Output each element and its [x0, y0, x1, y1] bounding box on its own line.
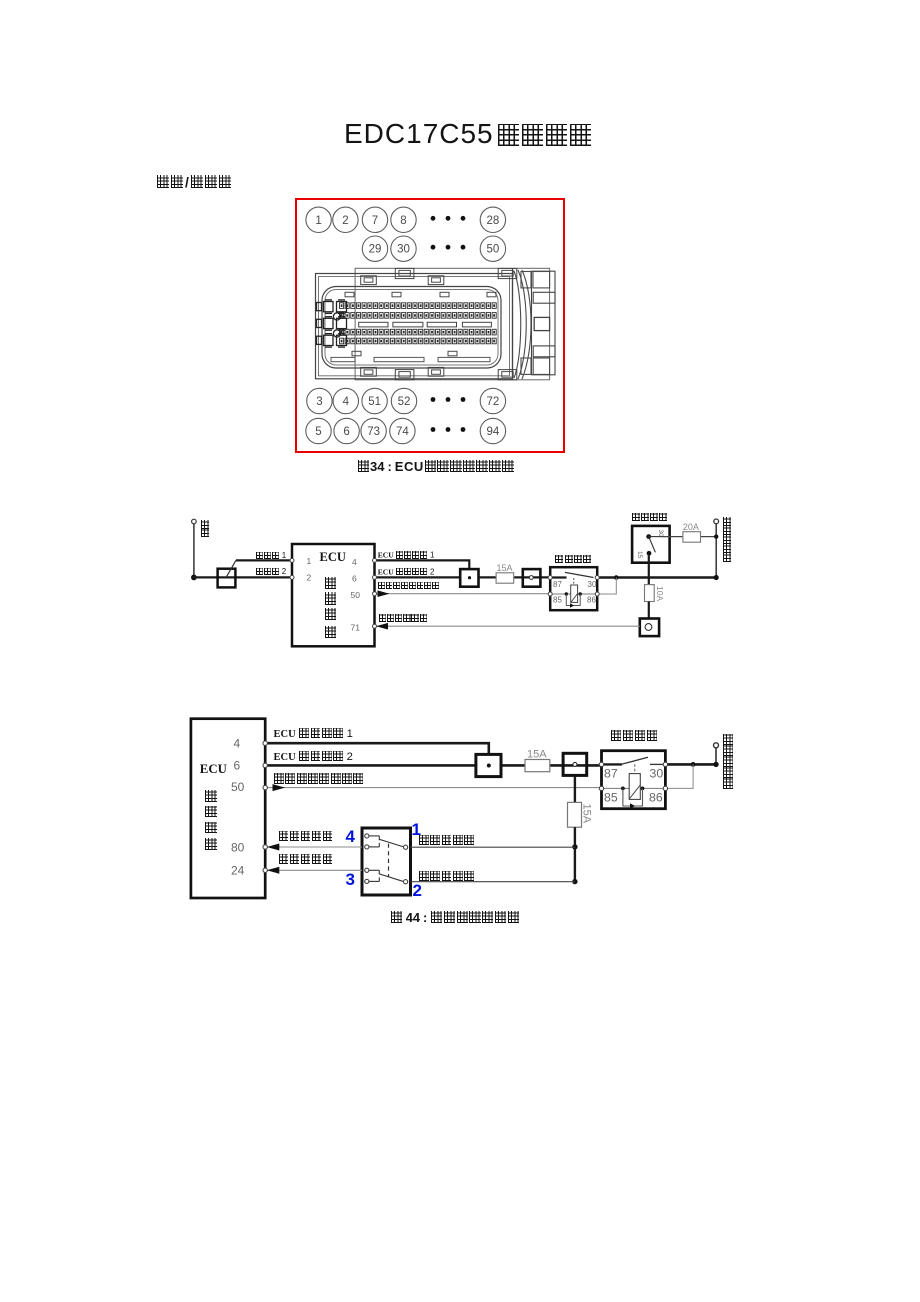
svg-text:1: 1 — [315, 215, 321, 227]
connector C5 junction — [563, 753, 587, 775]
svg-text:1: 1 — [307, 556, 312, 566]
wire 接地端1 to ECU pin1 — [236, 559, 292, 561]
wire ground vertical — [193, 524, 195, 578]
relay K1 主继电器 — [550, 567, 597, 610]
ECU1 box text — [320, 551, 346, 564]
wire main brake signal to pin80 — [265, 846, 362, 848]
svg-text:30: 30 — [650, 767, 664, 781]
wire bus relay30 to battery — [597, 576, 716, 578]
wire label 主刹车开关 — [418, 835, 474, 848]
svg-text:30: 30 — [657, 530, 664, 538]
wire battery drop (fig44) — [715, 748, 717, 765]
document title EDC17C55 pin definition — [344, 120, 593, 148]
svg-text:50: 50 — [351, 590, 361, 600]
svg-text:10A: 10A — [655, 586, 665, 601]
figure caption 图44 brake switch circuit — [390, 911, 520, 924]
svg-text:94: 94 — [487, 426, 500, 438]
svg-text:15A: 15A — [581, 804, 593, 824]
switch S1 点火开关 — [632, 526, 670, 563]
junction battery nodes — [714, 534, 718, 538]
svg-text:4: 4 — [234, 736, 241, 750]
svg-text:2: 2 — [342, 215, 348, 227]
wire junction down to brake fuse — [574, 775, 576, 802]
svg-text:85: 85 — [604, 791, 618, 805]
wire aux brake signal to pin24 — [265, 869, 362, 871]
op ECU box (circuit 1) — [292, 544, 375, 646]
wire ignition signal to ECU pin71 — [375, 625, 640, 627]
relay K2 主继电器 — [602, 751, 666, 809]
wire fuse down to brake switches — [574, 827, 576, 881]
wire ECU supply input 2 (fig44) — [265, 764, 476, 767]
svg-text:80: 80 — [231, 841, 245, 855]
connector symbol ground splice — [218, 569, 236, 588]
switch S2 brake switch box — [362, 828, 411, 895]
svg-text:73: 73 — [367, 426, 380, 438]
svg-text:3: 3 — [316, 396, 322, 408]
svg-text:15: 15 — [636, 551, 643, 559]
svg-text:6: 6 — [352, 574, 357, 584]
svg-text:7: 7 — [372, 215, 378, 227]
ECU1 pin numbers — [307, 556, 361, 633]
wire through fuse to relay — [479, 576, 551, 578]
svg-text:30: 30 — [588, 580, 597, 589]
fuse F4 15A — [525, 760, 550, 772]
wire label 接地端2 — [256, 568, 286, 577]
fuse F1 15A — [496, 573, 514, 583]
battery positive terminal — [714, 519, 719, 524]
junction brake nodes — [572, 844, 577, 849]
wire relay control to pin50 (fig44) — [265, 787, 601, 789]
svg-text:20A: 20A — [683, 522, 699, 532]
svg-text:30: 30 — [397, 244, 410, 256]
wire 主刹车开关 to junction — [411, 846, 575, 848]
junction ground node — [191, 575, 197, 581]
wire ECU supply input 2 — [375, 576, 461, 578]
svg-text:86: 86 — [587, 595, 596, 604]
label 点火开关 (S1) — [631, 513, 667, 523]
ECU2 pin numbers — [231, 736, 245, 877]
wire ignition to 20A fuse — [660, 536, 716, 538]
connector C3 ignition signal splice — [640, 619, 659, 637]
connector left keying pins — [317, 300, 347, 347]
svg-text:29: 29 — [369, 244, 382, 256]
ECU 94-pin connector drawing — [316, 268, 550, 380]
wire fuse to splice — [648, 602, 650, 619]
fuse F2 20A — [683, 532, 701, 543]
ECU2 pin terminal circles — [263, 741, 267, 873]
node label 接地 — [201, 520, 209, 537]
svg-text:15A: 15A — [497, 563, 513, 573]
wire ECU supply input 1 — [375, 560, 470, 569]
svg-text:86: 86 — [649, 791, 663, 805]
connector pin field — [340, 303, 497, 344]
wire label 主继电器控制信号 (fig44) — [274, 773, 364, 786]
wire label 接地端1 — [256, 552, 286, 561]
label 主继电器 (K2) — [610, 730, 658, 742]
svg-text:4: 4 — [352, 557, 357, 567]
svg-text:4: 4 — [343, 396, 350, 408]
wire label 副刹车信号 — [278, 854, 333, 866]
wire ground to ECU pin2 — [194, 576, 292, 578]
svg-text:5: 5 — [315, 426, 321, 438]
wire label ECU供电输入2 — [378, 568, 435, 577]
svg-text:28: 28 — [487, 215, 500, 227]
connector C2 — [523, 569, 541, 587]
wire relay to battery (fig44) — [665, 763, 716, 766]
connector C4 — [476, 754, 501, 776]
ECU pin terminal circles — [290, 558, 377, 628]
wire ECU supply input 1 (fig44) — [265, 743, 489, 754]
wire label 副刹车开关 — [418, 871, 474, 884]
figure caption 图34 ECU connector pinout — [357, 460, 515, 473]
svg-text:87: 87 — [604, 767, 618, 781]
fuse F5 15A vertical — [568, 802, 582, 827]
ground terminal circle — [192, 519, 197, 524]
connector pin number circles — [306, 207, 506, 444]
section heading 电路/连接图 — [156, 175, 232, 189]
svg-text:8: 8 — [400, 215, 406, 227]
battery positive terminal (fig44) — [714, 743, 719, 748]
wire ignition 15 down — [648, 556, 650, 585]
svg-text:50: 50 — [231, 780, 245, 794]
connector C1 — [460, 569, 478, 587]
svg-text:51: 51 — [368, 396, 381, 408]
wire supply bus to relay — [501, 764, 602, 767]
wire label 主继电器控制信号 — [377, 582, 439, 590]
svg-text:50: 50 — [487, 244, 500, 256]
brake switch pin 3 (blue) — [346, 871, 355, 888]
wire label 主刹车信号 — [278, 831, 333, 843]
wire label ECU供电输入1 (fig44) — [274, 728, 353, 741]
svg-text:85: 85 — [553, 595, 562, 604]
svg-text:72: 72 — [487, 396, 500, 408]
svg-text:6: 6 — [234, 759, 241, 773]
svg-text:15A: 15A — [527, 749, 547, 761]
svg-text:6: 6 — [343, 426, 349, 438]
red frame around connector figure — [295, 198, 565, 453]
junction bus node — [614, 575, 619, 580]
wire label ECU供电输入1 — [378, 551, 435, 560]
junction node — [691, 762, 696, 767]
fuse F3 10A — [645, 585, 655, 602]
brake switch pin 2 (blue) — [413, 882, 422, 899]
wire label ECU供电输入2 (fig44) — [274, 751, 353, 764]
label 蓄电池正极 (fig44) — [723, 734, 734, 789]
svg-text:52: 52 — [398, 396, 411, 408]
svg-text:2: 2 — [307, 573, 312, 583]
brake switch pin 4 (blue) — [346, 828, 355, 845]
svg-text:71: 71 — [351, 623, 361, 633]
label 蓄电池正极 (fig34) — [723, 517, 732, 562]
label 主继电器 (K1) — [555, 555, 592, 565]
op ECU box (circuit 2) — [191, 719, 265, 898]
wire relay86 link (fig44) — [665, 764, 693, 788]
wire splice diagonal — [226, 560, 236, 577]
svg-text:87: 87 — [553, 580, 562, 589]
wire label 点火开关信号 — [378, 614, 427, 623]
wire battery drop — [715, 524, 717, 578]
connector lever and right latch block — [513, 268, 556, 380]
ECU2 box text — [200, 763, 227, 776]
wire 副刹车开关 to junction — [411, 881, 575, 883]
brake switch pin 1 (blue) — [412, 821, 421, 838]
wire relay control to pin50 — [375, 593, 551, 595]
svg-text:24: 24 — [231, 864, 245, 878]
svg-text:74: 74 — [396, 426, 409, 438]
wire relay86 link — [597, 578, 616, 595]
